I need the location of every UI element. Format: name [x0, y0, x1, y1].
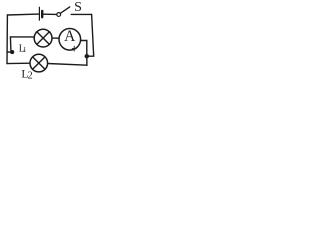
battery B1 long plate — [38, 7, 40, 20]
junction dot left — [10, 50, 14, 54]
wire node up to ammeter — [80, 41, 86, 57]
wire bottom-left to L2 — [7, 62, 30, 64]
battery B1 short plate — [41, 11, 43, 17]
switch S blade — [61, 7, 70, 13]
svg-text:2: 2 — [28, 70, 33, 81]
ammeter A circle — [59, 29, 81, 51]
wire L1 riser down to junction — [9, 37, 12, 51]
wire L1 to left corner — [10, 36, 34, 38]
lamp L1 cross — [37, 32, 50, 45]
lamp L2 cross — [33, 57, 45, 69]
wire top-left — [7, 13, 38, 16]
junction dot right — [85, 54, 90, 59]
svg-text:A: A — [64, 28, 76, 45]
wire switch to top-right corner — [71, 13, 91, 15]
lamp L2 circle — [30, 54, 48, 72]
wire right edge — [87, 14, 94, 56]
wire L2 to right — [48, 64, 87, 66]
svg-text:S: S — [74, 0, 82, 15]
wire riser to node — [86, 56, 88, 65]
switch S pivot contact — [57, 13, 61, 17]
wire ammeter to L1 — [52, 37, 59, 39]
svg-text:1: 1 — [23, 47, 26, 54]
wire junction stub — [7, 51, 12, 53]
lamp L1 circle — [34, 29, 52, 47]
wire battery to switch — [44, 13, 57, 15]
ammeter plus terminal — [72, 46, 77, 52]
wire left edge — [6, 15, 8, 64]
